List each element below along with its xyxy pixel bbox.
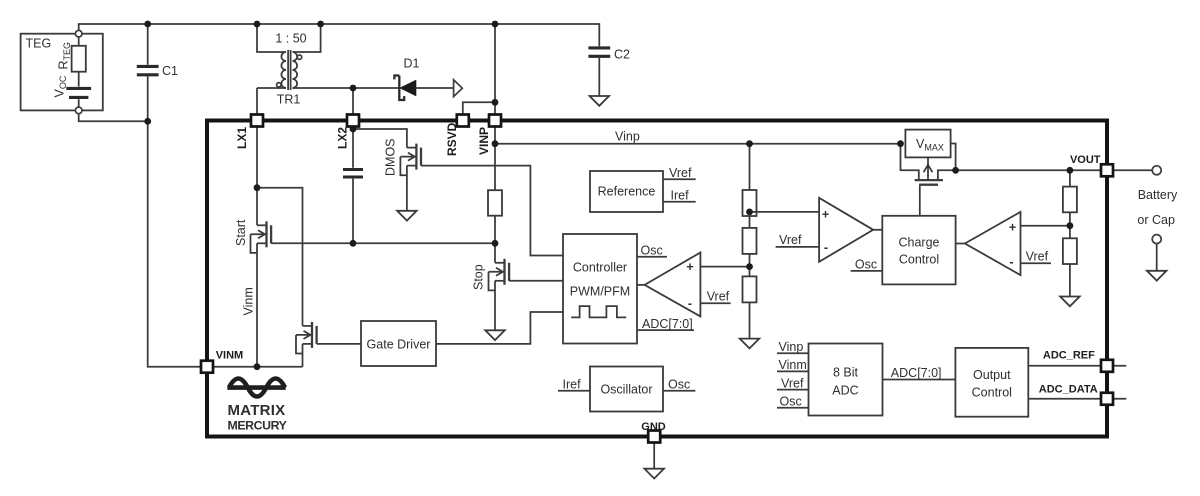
svg-text:+: +	[1009, 221, 1016, 235]
svg-text:Gate Driver: Gate Driver	[367, 337, 431, 351]
svg-text:Vinm: Vinm	[242, 287, 256, 315]
svg-text:Battery: Battery	[1138, 188, 1178, 202]
svg-text:Start: Start	[234, 219, 248, 246]
svg-text:Iref: Iref	[671, 189, 690, 203]
svg-text:Output: Output	[973, 368, 1011, 382]
svg-text:Vref: Vref	[779, 233, 802, 247]
svg-text:Oscillator: Oscillator	[600, 382, 652, 396]
svg-text:+: +	[686, 260, 693, 274]
svg-text:Osc: Osc	[855, 258, 877, 272]
svg-text:Vref: Vref	[669, 166, 692, 180]
svg-text:VINP: VINP	[477, 127, 491, 155]
svg-text:MERCURY: MERCURY	[228, 418, 287, 432]
svg-text:-: -	[688, 297, 692, 311]
svg-text:Control: Control	[899, 253, 939, 267]
svg-text:MATRIX: MATRIX	[228, 402, 286, 419]
svg-text:Control: Control	[972, 386, 1012, 400]
svg-text:ADC_DATA: ADC_DATA	[1039, 384, 1098, 396]
svg-text:1 : 50: 1 : 50	[275, 32, 306, 46]
svg-text:DMOS: DMOS	[384, 139, 398, 177]
svg-text:VINM: VINM	[216, 350, 244, 362]
svg-text:ADC[7:0]: ADC[7:0]	[891, 366, 942, 380]
svg-text:8 Bit: 8 Bit	[833, 365, 859, 379]
svg-text:TR1: TR1	[277, 93, 301, 107]
svg-text:+: +	[822, 208, 829, 222]
svg-text:Controller: Controller	[573, 261, 627, 275]
svg-text:LX1: LX1	[235, 127, 249, 149]
svg-text:Stop: Stop	[472, 264, 486, 290]
svg-text:-: -	[824, 241, 828, 255]
svg-text:Osc: Osc	[780, 395, 802, 409]
svg-text:Osc: Osc	[641, 244, 663, 258]
svg-text:LX2: LX2	[336, 127, 350, 149]
svg-text:Vinp: Vinp	[779, 340, 804, 354]
svg-text:or Cap: or Cap	[1137, 213, 1175, 227]
svg-text:VOUT: VOUT	[1070, 154, 1101, 166]
svg-text:Vref: Vref	[707, 290, 730, 304]
svg-text:ADC: ADC	[832, 383, 858, 397]
svg-text:Vref: Vref	[781, 376, 804, 390]
svg-text:Reference: Reference	[598, 185, 656, 199]
svg-text:PWM/PFM: PWM/PFM	[570, 284, 630, 298]
svg-text:D1: D1	[404, 57, 420, 71]
svg-text:Vinm: Vinm	[779, 358, 807, 372]
svg-text:ADC_REF: ADC_REF	[1043, 349, 1095, 361]
svg-text:RSVD: RSVD	[445, 122, 459, 156]
svg-text:Osc: Osc	[668, 377, 690, 391]
svg-text:C2: C2	[614, 48, 630, 62]
svg-text:Vinp: Vinp	[615, 130, 640, 144]
svg-text:ADC[7:0]: ADC[7:0]	[642, 317, 693, 331]
svg-text:-: -	[1009, 255, 1013, 269]
svg-text:Vref: Vref	[1026, 250, 1049, 264]
svg-text:Charge: Charge	[899, 235, 940, 249]
svg-text:Iref: Iref	[563, 377, 582, 391]
svg-text:TEG: TEG	[26, 37, 52, 51]
svg-text:C1: C1	[162, 64, 178, 78]
